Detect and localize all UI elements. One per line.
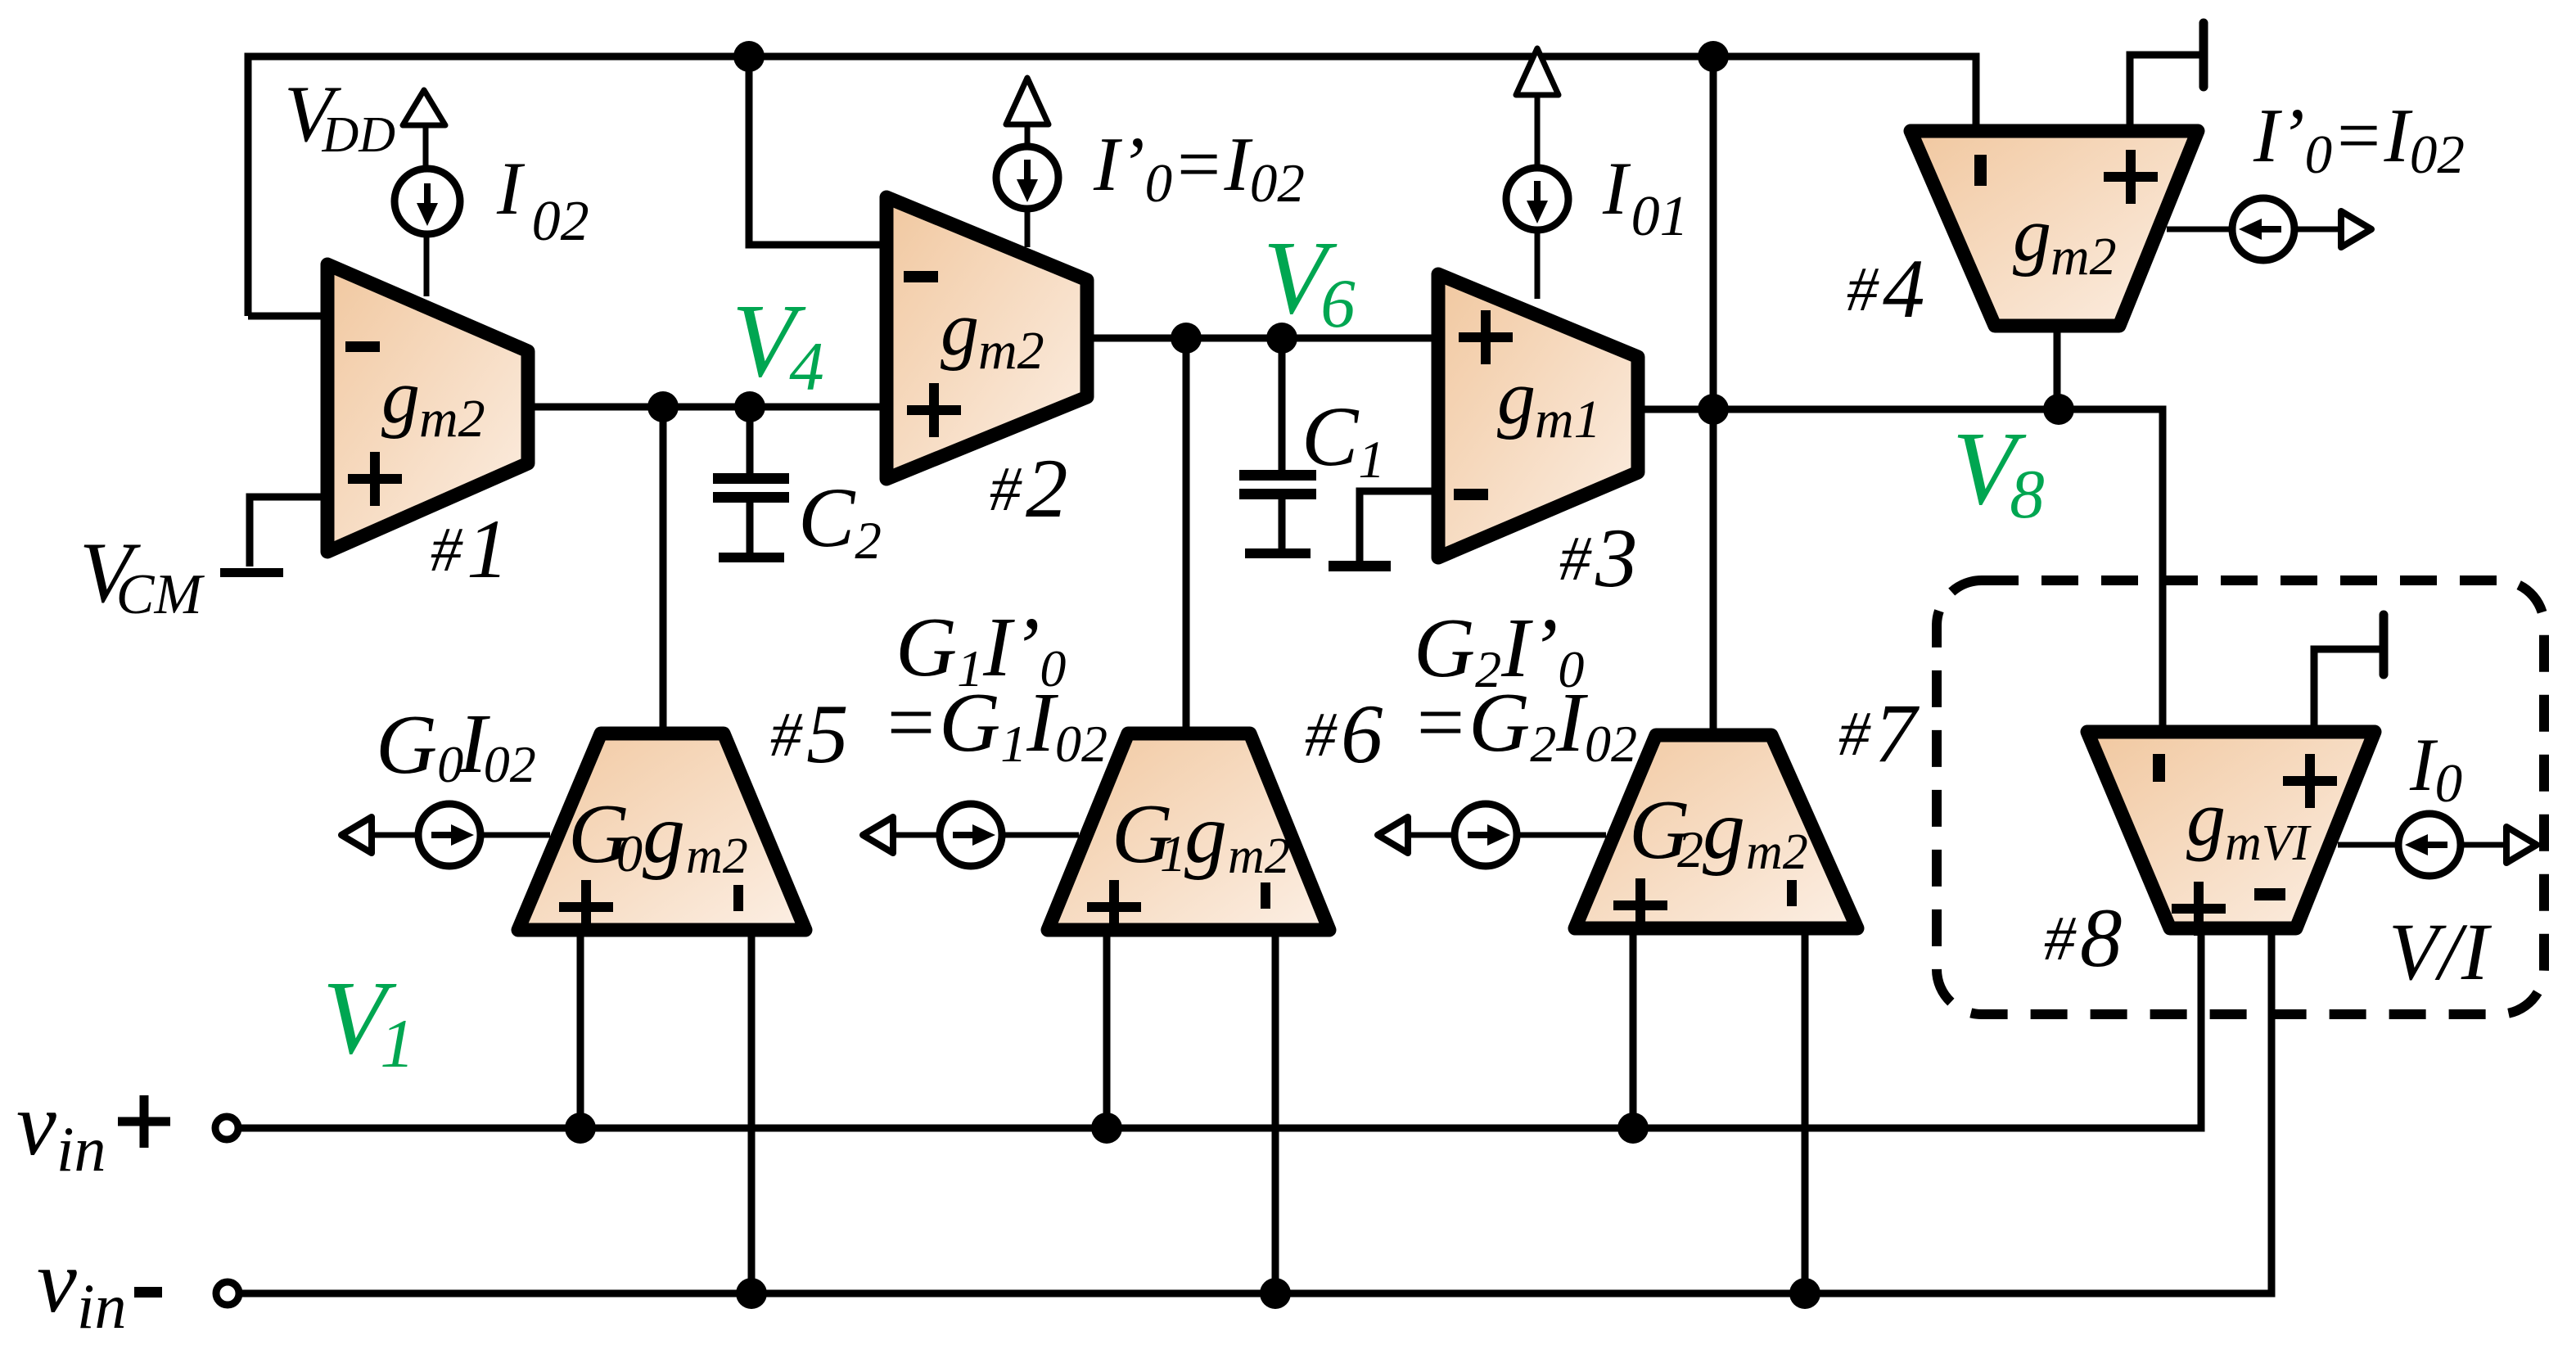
wire U5 left leg [577, 928, 584, 1128]
current source G2I'0 of U7 [1455, 804, 1517, 866]
arrow out of U4 source [2341, 211, 2371, 247]
svg-text:g: g [941, 287, 979, 372]
svg-text:4: 4 [1883, 242, 1925, 336]
node junction V6 to U6 [1171, 323, 1202, 354]
ground VCM at U1 plus input [220, 497, 334, 577]
wire U5 right leg [748, 928, 756, 1293]
capacitor C1 [1239, 470, 1316, 558]
wire V8 net U3 out to U8 [1634, 409, 2163, 738]
svg-text:1: 1 [467, 503, 509, 596]
node V4 [734, 391, 765, 422]
wire [1408, 833, 1455, 838]
wire [372, 833, 418, 838]
svg-text:mVI: mVI [2225, 815, 2312, 871]
current source I02 [395, 169, 460, 234]
svg-text:2: 2 [1026, 442, 1068, 535]
svg-text:8: 8 [2080, 891, 2123, 985]
wire top bus [248, 56, 1976, 316]
node junction V8 at column [1698, 394, 1729, 425]
ground bar at U3 minus [1329, 561, 1391, 571]
current source G1I'0 of U6 [940, 804, 1002, 866]
wire down to U5 top [660, 407, 667, 735]
supply T-bar above U8 [2380, 615, 2389, 675]
wire [1535, 95, 1541, 169]
op-amp gm2 U1 (#1) [327, 264, 528, 596]
svg-text:m2: m2 [978, 321, 1044, 381]
op-amp gmVI U8 (#8) [2087, 732, 2375, 936]
svg-text:V/I: V/I [2389, 906, 2493, 997]
svg-text:m2: m2 [1746, 824, 1808, 880]
node U6 plus leg on vin+ [1091, 1113, 1122, 1144]
svg-text:m2: m2 [419, 389, 485, 449]
svg-text:#: # [990, 454, 1022, 524]
op-amp G2gm2 U7 (#7) [1575, 735, 1857, 932]
dashed box V/I converter [1937, 580, 2544, 1014]
current source I'0 output of U4 [2232, 198, 2294, 260]
terminal vin- [216, 1282, 239, 1305]
supply T-bar above U4 [2199, 23, 2208, 87]
wire U7 left leg [1630, 927, 1637, 1128]
wire U8 plus input to supply bar [2314, 649, 2380, 738]
svg-text:m2: m2 [686, 828, 748, 884]
svg-text:#: # [770, 699, 803, 770]
wire to U1 minus input [248, 313, 334, 320]
capacitor C2 [713, 473, 789, 562]
node U5 plus leg on vin+ [565, 1113, 596, 1144]
svg-text:#: # [1838, 698, 1871, 769]
arrow to VDD over U1 [403, 90, 445, 125]
svg-text:#: # [1559, 523, 1592, 594]
svg-text:#: # [1847, 254, 1879, 324]
wire to U3 top [1535, 230, 1541, 299]
node U6 minus leg on vin- [1260, 1278, 1291, 1309]
wire V4 net U1 out to U2 plus [524, 404, 893, 411]
wire U4 bottom output to V8 [2054, 323, 2061, 409]
wire [2294, 227, 2342, 232]
svg-text:0: 0 [616, 824, 643, 882]
node U5 minus leg on vin- [736, 1278, 767, 1309]
node U7 minus leg on vin- [1789, 1278, 1820, 1309]
wire U6 output [1002, 833, 1079, 838]
wire column down to U7 top [1710, 56, 1717, 737]
wire U7 right leg [1802, 927, 1809, 1293]
wire [893, 833, 940, 838]
wire vin- line [238, 925, 2271, 1293]
svg-text:m1: m1 [1535, 390, 1601, 449]
svg-text:g: g [2186, 774, 2226, 862]
wire U3 minus input to ground [1360, 491, 1445, 562]
svg-text:5: 5 [806, 688, 849, 781]
wire U5 output [480, 833, 550, 838]
arrow out of U8 source [2506, 827, 2537, 863]
svg-text:m2: m2 [1228, 828, 1290, 884]
node junction top bus to U7 column [1698, 41, 1729, 72]
wire to U1 top [424, 234, 430, 296]
svg-text:1: 1 [1160, 824, 1186, 882]
svg-text:6: 6 [1341, 688, 1383, 781]
wire U6 right leg [1272, 928, 1279, 1293]
wire U4 plus input to supply bar [2130, 55, 2200, 138]
wire V6 net U2 out to U3 plus [1083, 335, 1445, 342]
current source I'0 over U2 [996, 147, 1058, 209]
wire V6 down to C1 [1279, 338, 1286, 472]
svg-text:7: 7 [1874, 687, 1920, 780]
node junction V4 to U5 [647, 391, 679, 422]
wire U6 left leg [1103, 928, 1111, 1128]
wire U4 output [2167, 227, 2232, 232]
svg-text:g: g [643, 787, 685, 881]
svg-text:g: g [1184, 787, 1227, 881]
op-amp gm2 U2 (#2) [886, 197, 1087, 535]
svg-text:2: 2 [1677, 820, 1703, 878]
arrow out of U6 source [863, 817, 893, 853]
svg-text:g: g [1497, 355, 1536, 440]
op-amp gm1 U3 (#3) [1438, 274, 1638, 605]
node U7 plus leg on vin+ [1617, 1113, 1649, 1144]
current source I0 output of U8 [2398, 814, 2461, 876]
node junction top bus to U2 [733, 41, 765, 72]
arrow to supply over U3 [1516, 48, 1559, 95]
wire vin+ line [237, 925, 2201, 1128]
current source I01 [1506, 168, 1568, 230]
wire [1025, 124, 1031, 147]
op-amp G1gm2 U6 (#6) [1048, 733, 1329, 934]
arrow out of U7 source [1378, 817, 1408, 853]
svg-text:#: # [2044, 903, 2077, 973]
node V6 [1266, 323, 1297, 354]
svg-text:g: g [1703, 783, 1745, 877]
op-amp G0gm2 U5 (#5) [518, 733, 805, 934]
wire U8 output [2338, 842, 2398, 848]
wire U7 output [1517, 833, 1606, 838]
wire top bus to U2 minus input [749, 56, 893, 245]
svg-text:#: # [431, 514, 463, 584]
wire to U2 top [1025, 209, 1031, 247]
svg-text:g: g [381, 354, 420, 440]
svg-text:3: 3 [1595, 512, 1638, 605]
wire [423, 125, 429, 169]
wire [2461, 842, 2507, 848]
terminal vin+ [215, 1117, 238, 1140]
svg-text:g: g [2013, 192, 2051, 278]
wire down to U6 top [1183, 338, 1190, 735]
svg-text:m2: m2 [2050, 227, 2117, 287]
arrow to supply over U2 [1006, 78, 1049, 124]
op-amp gm2 U4 (#4) [1911, 131, 2198, 326]
wire V4 down to C2 [747, 407, 754, 475]
arrow out of U5 source [341, 817, 372, 853]
current source G0I02 of U5 [418, 804, 480, 866]
svg-text:#: # [1305, 699, 1338, 770]
node V8 [2043, 394, 2074, 425]
